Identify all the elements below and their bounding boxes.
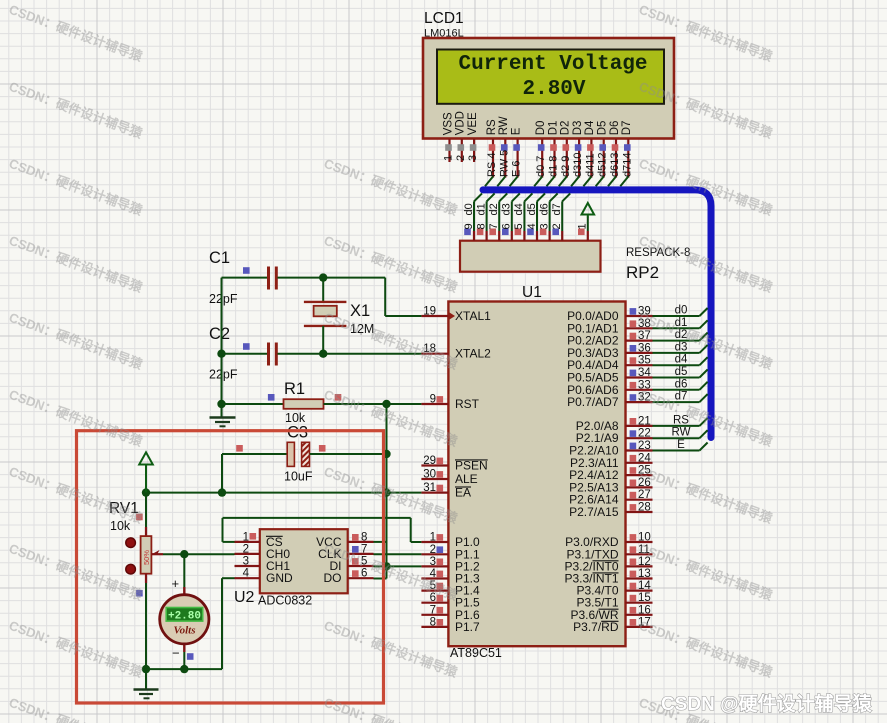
U1 pin 13 P3.3/INT1 bbox=[564, 568, 652, 586]
node marker RV1 bottom bbox=[136, 590, 143, 597]
svg-text:3: 3 bbox=[430, 556, 436, 568]
wire LCD pin 4 to bus bbox=[485, 177, 493, 187]
junction rail (EA net) bbox=[382, 488, 390, 496]
red annotation box bbox=[77, 431, 384, 703]
wire RW from U1 to bus bbox=[653, 427, 708, 439]
svg-text:5: 5 bbox=[513, 223, 525, 229]
LCD1 pin 8 D1 bbox=[547, 121, 559, 178]
wire RS from U1 to bus bbox=[653, 414, 708, 426]
capacitor C3 electrolytic bbox=[287, 442, 309, 466]
svg-text:22pF: 22pF bbox=[209, 292, 238, 306]
U2 pin 8 VCC bbox=[316, 531, 373, 549]
U1 pin 32 P0.7/AD7 bbox=[567, 392, 652, 410]
U1 pin 1 P1.0 bbox=[421, 532, 480, 550]
wire voltmeter plus bbox=[183, 554, 185, 587]
wire d0 from U1 P0.0 to bus bbox=[653, 305, 708, 317]
svg-text:ADC0832: ADC0832 bbox=[258, 594, 312, 608]
svg-text:P0.7/AD7: P0.7/AD7 bbox=[567, 395, 619, 409]
svg-text:LM016L: LM016L bbox=[424, 28, 464, 40]
svg-text:VDD: VDD bbox=[455, 111, 467, 135]
svg-text:C3: C3 bbox=[287, 424, 308, 442]
U1 pin 37 P0.2/AD2 bbox=[567, 330, 652, 348]
U1 pin 30 ALE bbox=[421, 469, 477, 487]
U1 pin 9 RST bbox=[421, 394, 479, 412]
svg-text:d0: d0 bbox=[463, 203, 475, 215]
wire LCD pin 12 to bus bbox=[596, 177, 604, 187]
left rail C1-ground bbox=[221, 278, 223, 417]
svg-text:1: 1 bbox=[243, 531, 249, 543]
U2 pin 4 GND bbox=[235, 568, 294, 586]
svg-text:9: 9 bbox=[430, 394, 436, 406]
svg-text:VSS: VSS bbox=[442, 112, 454, 135]
svg-text:d3: d3 bbox=[501, 203, 513, 215]
U1 pin 8 P1.7 bbox=[421, 616, 480, 634]
svg-text:31: 31 bbox=[423, 482, 436, 494]
LCD1 pin 12 D5 bbox=[597, 121, 609, 178]
U1 pin 10 P3.0/RXD bbox=[565, 532, 652, 550]
U1 pin 27 P2.6/A14 bbox=[569, 489, 652, 507]
svg-text:9: 9 bbox=[463, 223, 475, 229]
svg-text:2: 2 bbox=[455, 155, 467, 161]
microcontroller U1 AT89C51 body bbox=[448, 302, 625, 647]
svg-text:23: 23 bbox=[638, 440, 651, 452]
svg-text:d310: d310 bbox=[572, 153, 584, 177]
RP2 pin 2 (d7) bbox=[551, 193, 570, 240]
U1 pin 11 P3.1/TXD bbox=[566, 544, 652, 562]
svg-text:7: 7 bbox=[488, 223, 500, 229]
svg-text:PSEN: PSEN bbox=[455, 459, 488, 473]
RP2 pin 9 (d0) bbox=[463, 193, 482, 240]
svg-text:27: 27 bbox=[638, 489, 651, 501]
U2 pin 3 CH1 bbox=[235, 556, 291, 574]
svg-text:d512: d512 bbox=[597, 153, 609, 177]
wire LCD pin 9 to bus bbox=[559, 177, 567, 187]
svg-text:RW 5: RW 5 bbox=[498, 150, 510, 177]
svg-text:4: 4 bbox=[526, 223, 538, 229]
svg-text:30: 30 bbox=[423, 469, 436, 481]
wire d4 from U1 P0.4 to bus bbox=[653, 354, 708, 366]
wire X1 top bbox=[322, 278, 324, 301]
LCD1 pin 7 D0 bbox=[535, 121, 547, 178]
U1 pin 16 P3.6/WR bbox=[570, 604, 652, 622]
U1 pin 17 P3.7/RD bbox=[573, 616, 652, 634]
svg-text:3: 3 bbox=[243, 556, 249, 568]
junction ground row / RV1 bbox=[142, 665, 150, 673]
svg-text:D7: D7 bbox=[621, 121, 633, 136]
svg-text:RP2: RP2 bbox=[626, 263, 659, 282]
RP2 pin 4 (d5) bbox=[526, 193, 545, 240]
vertical net R1-C3-rail-DI (under red box edge) bbox=[386, 404, 388, 579]
XTAL1 pin marker bbox=[450, 313, 456, 320]
svg-text:+2.80: +2.80 bbox=[168, 610, 201, 622]
svg-text:GND: GND bbox=[266, 571, 293, 585]
junction wiper/voltmeter bbox=[180, 550, 188, 558]
svg-text:−: − bbox=[172, 646, 180, 661]
svg-text:37: 37 bbox=[638, 330, 651, 342]
junction C3 right bbox=[382, 450, 390, 458]
svg-text:d613: d613 bbox=[609, 153, 621, 177]
svg-text:E: E bbox=[677, 439, 685, 451]
junction rail/C2 bbox=[217, 350, 225, 358]
svg-text:d7: d7 bbox=[551, 203, 563, 215]
U1 pin 12 P3.2/INT0 bbox=[564, 556, 652, 574]
svg-text:2.80V: 2.80V bbox=[522, 78, 585, 101]
junction rail/C3 left bbox=[218, 488, 226, 496]
U1 pin 25 P2.4/A12 bbox=[569, 465, 652, 483]
svg-text:d2 9: d2 9 bbox=[560, 156, 572, 177]
LCD1 pin 5 RW bbox=[498, 116, 510, 177]
U1 pin 14 P3.4/T0 bbox=[576, 580, 652, 598]
wire CLK to P1.1 bbox=[374, 553, 422, 555]
svg-text:36: 36 bbox=[638, 342, 651, 354]
wire ADC GND down-around bbox=[222, 578, 235, 669]
svg-text:R1: R1 bbox=[284, 380, 305, 398]
svg-text:P1.7: P1.7 bbox=[455, 620, 480, 634]
svg-text:D3: D3 bbox=[572, 121, 584, 136]
svg-text:1: 1 bbox=[443, 155, 455, 161]
wire VCC to hidden vertical bbox=[374, 541, 387, 543]
wire C3 right bbox=[310, 453, 387, 455]
LCD1 pin 3 VEE bbox=[467, 112, 479, 162]
U1 pin 19 XTAL1 bbox=[421, 306, 491, 324]
svg-text:E 6: E 6 bbox=[511, 160, 523, 177]
LCD1 pin 2 VDD bbox=[455, 111, 467, 162]
U1 pin 24 P2.3/A11 bbox=[570, 452, 652, 470]
U1 pin 22 P2.1/A9 bbox=[576, 428, 653, 446]
U1 pin 23 P2.2/A10 bbox=[569, 440, 652, 458]
LCD1 pin 11 D4 bbox=[584, 120, 596, 178]
svg-text:d0 7: d0 7 bbox=[535, 156, 547, 177]
svg-text:d1 8: d1 8 bbox=[548, 156, 560, 177]
svg-text:X1: X1 bbox=[350, 302, 370, 320]
wire CS route to P1.0 bbox=[223, 518, 422, 542]
svg-text:10uF: 10uF bbox=[284, 470, 313, 484]
svg-text:6: 6 bbox=[501, 223, 513, 229]
svg-text:1: 1 bbox=[577, 223, 589, 229]
LCD1 pin 6 E bbox=[510, 127, 522, 177]
svg-text:E: E bbox=[510, 127, 522, 135]
svg-text:50%: 50% bbox=[142, 550, 151, 565]
wire C1 right to XTAL1 bbox=[278, 278, 422, 316]
wire ground row bbox=[146, 668, 222, 670]
svg-text:15: 15 bbox=[638, 592, 651, 604]
RP2 pin 5 (d4) bbox=[513, 193, 532, 240]
RP2 pin 6 (d3) bbox=[501, 193, 520, 240]
U1 pin 34 P0.5/AD5 bbox=[567, 367, 652, 385]
svg-text:d714: d714 bbox=[621, 153, 633, 177]
svg-text:2: 2 bbox=[551, 223, 563, 229]
svg-text:RW: RW bbox=[498, 116, 510, 135]
wire VCC rail to EA pin 31 bbox=[146, 492, 421, 494]
wire LCD pin 14 to bus bbox=[620, 177, 628, 187]
svg-text:14: 14 bbox=[638, 580, 651, 592]
wire RV1 leg to ground bbox=[145, 669, 147, 688]
svg-text:d6: d6 bbox=[675, 378, 688, 390]
svg-text:8: 8 bbox=[361, 531, 367, 543]
power terminal arrow (RP2 pin1) bbox=[582, 203, 595, 215]
RP2 pin 7 (d2) bbox=[488, 193, 507, 240]
svg-text:D2: D2 bbox=[560, 121, 572, 136]
U2 pin 6 DO bbox=[324, 568, 374, 586]
node marker C1 bbox=[243, 267, 250, 274]
U1 pin 4 P1.3 bbox=[421, 568, 480, 586]
svg-text:d0: d0 bbox=[675, 305, 688, 317]
svg-text:d6: d6 bbox=[538, 203, 550, 215]
svg-text:8: 8 bbox=[475, 223, 487, 229]
resistor R1 bbox=[284, 399, 324, 409]
svg-text:21: 21 bbox=[638, 415, 651, 427]
svg-text:LCD1: LCD1 bbox=[424, 10, 464, 27]
U1 pin 36 P0.3/AD3 bbox=[567, 342, 652, 360]
wire E from U1 to bus bbox=[653, 439, 708, 451]
wire d1 from U1 P0.1 to bus bbox=[653, 317, 708, 329]
svg-text:RS: RS bbox=[486, 119, 498, 135]
svg-text:d4: d4 bbox=[675, 354, 688, 366]
U2 pin 7 CLK bbox=[318, 543, 373, 561]
svg-text:D4: D4 bbox=[584, 120, 596, 135]
LCD1 pin 14 D7 bbox=[621, 121, 633, 178]
svg-text:DO: DO bbox=[324, 571, 342, 585]
U1 pin 35 P0.4/AD4 bbox=[567, 355, 652, 373]
wire RV1 bottom leg bbox=[145, 583, 147, 669]
svg-text:CSDN @硬件设计辅导猿: CSDN @硬件设计辅导猿 bbox=[661, 692, 873, 715]
LCD1 pin 1 VSS bbox=[442, 112, 454, 162]
svg-text:C2: C2 bbox=[209, 325, 230, 343]
U1 pin 6 P1.5 bbox=[421, 592, 480, 610]
bus from LCD to RP2 and U1 port0/port2 bbox=[483, 190, 711, 438]
svg-text:d5: d5 bbox=[675, 366, 688, 378]
junction R1/C3 vertical bbox=[382, 400, 390, 408]
svg-text:C1: C1 bbox=[209, 249, 230, 267]
U1 pin 26 P2.5/A13 bbox=[569, 477, 652, 495]
svg-text:RST: RST bbox=[455, 397, 480, 411]
node marker voltmeter minus bbox=[187, 653, 194, 660]
LCD display LCD1 LM016L bbox=[423, 38, 674, 139]
LCD1 pin 9 D2 bbox=[560, 121, 572, 178]
svg-text:D1: D1 bbox=[547, 121, 559, 136]
svg-text:U1: U1 bbox=[522, 284, 542, 301]
svg-text:d2: d2 bbox=[488, 203, 500, 215]
node marker C2 bbox=[243, 343, 250, 350]
svg-text:RS 4: RS 4 bbox=[486, 153, 498, 177]
wire d5 from U1 P0.5 to bus bbox=[653, 366, 708, 378]
wire C2 left to rail bbox=[222, 353, 268, 355]
wire DO to hidden vertical bbox=[374, 578, 387, 580]
junction C2/X1 bbox=[319, 350, 327, 358]
svg-text:D0: D0 bbox=[535, 121, 547, 136]
svg-text:35: 35 bbox=[638, 355, 651, 367]
voltmeter bbox=[160, 587, 209, 652]
RP2 pin 1 with power terminal bbox=[577, 217, 589, 241]
svg-text:D5: D5 bbox=[597, 121, 609, 136]
svg-text:AT89C51: AT89C51 bbox=[450, 646, 502, 660]
svg-text:7: 7 bbox=[430, 604, 436, 616]
svg-text:d411: d411 bbox=[584, 153, 596, 177]
svg-text:2: 2 bbox=[243, 543, 249, 555]
node marker R1 right bbox=[335, 394, 342, 401]
svg-text:RW: RW bbox=[672, 427, 691, 439]
wire LCD pin 7 to bus bbox=[534, 177, 542, 187]
svg-text:13: 13 bbox=[638, 568, 651, 580]
U1 pin 21 P2.0/A8 bbox=[576, 415, 653, 433]
wire LCD pin 13 to bus bbox=[608, 177, 616, 187]
wire LCD pin 11 to bus bbox=[583, 177, 591, 187]
U1 pin 38 P0.1/AD1 bbox=[567, 318, 652, 336]
power terminal arrow (RV1 top) bbox=[139, 452, 153, 492]
wire d2 from U1 P0.2 to bus bbox=[653, 329, 708, 341]
svg-text:19: 19 bbox=[423, 306, 436, 318]
junction rail/R1 bbox=[217, 400, 225, 408]
svg-text:d3: d3 bbox=[675, 341, 688, 353]
U1 pin 2 P1.1 bbox=[421, 544, 480, 562]
capacitor C1 bbox=[269, 267, 277, 290]
junction C1/X1 bbox=[319, 273, 327, 281]
ADC U2 ADC0832 body bbox=[260, 529, 348, 593]
node marker C3 right bbox=[319, 445, 326, 452]
svg-text:34: 34 bbox=[638, 367, 651, 379]
wire voltmeter minus bbox=[183, 652, 185, 669]
svg-text:Volts: Volts bbox=[173, 625, 195, 637]
svg-text:XTAL1: XTAL1 bbox=[455, 309, 491, 323]
wire d6 from U1 P0.6 to bus bbox=[653, 378, 708, 390]
svg-text:d1: d1 bbox=[475, 203, 487, 215]
wire d3 from U1 P0.3 to bus bbox=[653, 341, 708, 353]
U1 pin 39 P0.0/AD0 bbox=[567, 306, 652, 324]
node marker U2 pin1 bbox=[250, 533, 257, 540]
wire R1 left bbox=[222, 403, 284, 405]
svg-text:U2: U2 bbox=[234, 589, 255, 606]
U2 pin 1 CS bbox=[235, 531, 283, 549]
svg-text:1: 1 bbox=[430, 532, 436, 544]
svg-text:Current Voltage: Current Voltage bbox=[458, 53, 647, 76]
junction ground row / meter bbox=[180, 665, 188, 673]
svg-text:16: 16 bbox=[638, 604, 651, 616]
wire R1 right to RST bbox=[324, 403, 422, 405]
ground symbol (bottom) bbox=[134, 690, 159, 699]
svg-text:XTAL2: XTAL2 bbox=[455, 347, 491, 361]
svg-text:3: 3 bbox=[467, 155, 479, 161]
U2 pin 5 DI bbox=[330, 556, 374, 574]
svg-text:2: 2 bbox=[430, 544, 436, 556]
LCD1 pin 10 D3 bbox=[572, 121, 584, 178]
wire C2 right to XTAL2 bbox=[278, 353, 422, 355]
svg-text:+: + bbox=[172, 576, 180, 591]
svg-text:ALE: ALE bbox=[455, 472, 478, 486]
svg-text:P2.7/A15: P2.7/A15 bbox=[569, 505, 619, 519]
svg-text:3: 3 bbox=[538, 223, 550, 229]
U1 pin 18 XTAL2 bbox=[421, 343, 491, 361]
wire X1 bottom bbox=[322, 326, 324, 354]
wire LCD pin 5 to bus bbox=[497, 177, 505, 187]
wire DI to P1.2 bbox=[374, 565, 422, 567]
wire LCD pin 6 to bus bbox=[510, 177, 518, 187]
wire C1 left to left rail bbox=[222, 277, 268, 279]
svg-text:8: 8 bbox=[430, 616, 436, 628]
junction rail/RV1 bbox=[142, 488, 150, 496]
U1 pin 3 P1.2 bbox=[421, 556, 480, 574]
U1 pin 28 P2.7/A15 bbox=[569, 502, 652, 520]
capacitor C2 bbox=[269, 343, 277, 366]
svg-text:D6: D6 bbox=[609, 121, 621, 136]
U1 pin 33 P0.6/AD6 bbox=[567, 379, 652, 397]
node marker R1 left bbox=[268, 394, 275, 401]
U1 pin 15 P3.5/T1 bbox=[576, 592, 652, 610]
wire RV1 top leg bbox=[145, 493, 147, 527]
junction DI net bbox=[382, 562, 390, 570]
LCD1 pin 4 RS bbox=[486, 119, 498, 178]
svg-text:P3.7/RD: P3.7/RD bbox=[573, 620, 619, 634]
svg-text:EA: EA bbox=[455, 486, 471, 500]
RP2 pin 8 (d1) bbox=[475, 193, 494, 240]
U1 pin 5 P1.4 bbox=[421, 580, 480, 598]
crystal X1 bbox=[304, 302, 347, 326]
node marker RV1 top bbox=[136, 514, 143, 521]
svg-text:24: 24 bbox=[638, 452, 651, 464]
U1 pin 31 EA bbox=[421, 482, 471, 500]
wire C3 left bbox=[222, 454, 287, 493]
svg-text:22pF: 22pF bbox=[209, 368, 238, 382]
svg-text:28: 28 bbox=[638, 502, 651, 514]
U1 pin 7 P1.6 bbox=[421, 604, 480, 622]
wire d7 from U1 P0.7 to bus bbox=[653, 391, 708, 403]
U1 pin 29 PSEN bbox=[421, 455, 487, 473]
LCD1 pin 13 D6 bbox=[609, 121, 621, 178]
svg-text:4: 4 bbox=[243, 568, 250, 580]
svg-text:29: 29 bbox=[423, 455, 436, 467]
wire RV1 wiper to CH0 bbox=[163, 553, 235, 555]
node marker C3 left bbox=[236, 445, 243, 452]
potentiometer RV1 bbox=[126, 527, 163, 583]
U2 pin 2 CH0 bbox=[235, 543, 291, 561]
ground symbol (left rail) bbox=[210, 418, 236, 427]
svg-text:VEE: VEE bbox=[467, 112, 479, 135]
resistor pack RP2 body bbox=[460, 241, 601, 272]
svg-text:22: 22 bbox=[638, 428, 651, 440]
svg-text:d4: d4 bbox=[513, 203, 525, 215]
wire LCD pin 8 to bus bbox=[547, 177, 555, 187]
wire LCD pin 10 to bus bbox=[571, 177, 579, 187]
svg-text:d5: d5 bbox=[526, 203, 538, 215]
RP2 pin 3 (d6) bbox=[538, 193, 557, 240]
